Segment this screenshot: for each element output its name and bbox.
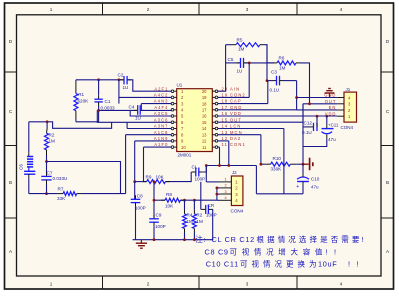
R7 labels (57, 187, 66, 201)
svg-text:18: 18 (202, 101, 207, 106)
wire bridge pin6-pin7 (126, 122, 128, 128)
svg-text:2: 2 (147, 7, 150, 12)
svg-text:12: 12 (222, 136, 229, 141)
connector J1 (337, 92, 356, 122)
wire bottom net (256, 193, 303, 195)
C5 labels (228, 57, 243, 74)
svg-text:12: 12 (202, 139, 207, 144)
resistor R7 (57, 192, 82, 196)
svg-text:值: 值 (315, 247, 323, 257)
CR labels (206, 203, 217, 218)
svg-text:!: ! (362, 235, 364, 244)
svg-text:16: 16 (222, 111, 229, 116)
svg-text:为: 为 (309, 259, 317, 269)
svg-text:C8 C9: C8 C9 (205, 248, 229, 257)
svg-text:CL: CL (192, 165, 198, 170)
svg-text:可: 可 (230, 248, 238, 257)
svg-text:注: 注 (195, 234, 203, 244)
resistor R9 (143, 180, 170, 184)
junction C12 right top (316, 115, 319, 118)
capacitor C2 (120, 76, 131, 84)
capacitor C10 (296, 164, 309, 194)
wire MCN column (218, 135, 261, 165)
wire R7 row (29, 193, 126, 195)
svg-text:4: 4 (340, 7, 343, 12)
junction C3 left (266, 79, 269, 82)
wire C2 left riser to pins 2-3 (118, 80, 120, 104)
svg-text:A1N9: A1N9 (154, 136, 169, 141)
wire C3 right column (218, 81, 297, 110)
svg-text:VDD: VDD (230, 111, 242, 116)
J2 part label (231, 209, 244, 214)
capacitor C11 (303, 116, 334, 146)
svg-text:OUT: OUT (325, 99, 337, 104)
svg-text:0.1U: 0.1U (270, 88, 280, 93)
svg-text:3: 3 (225, 190, 227, 194)
svg-text:C1: C1 (105, 99, 111, 104)
wire C5 row (226, 62, 274, 64)
svg-text:1M: 1M (49, 139, 56, 144)
J1 part label (341, 125, 354, 130)
svg-text:14: 14 (202, 126, 207, 131)
svg-text:100P: 100P (195, 177, 206, 182)
R1 labels (78, 92, 90, 104)
resistor R5 (226, 43, 267, 63)
capacitor C8 (131, 195, 141, 239)
svg-text:CON4: CON4 (231, 209, 244, 214)
svg-text:2: 2 (147, 282, 150, 287)
C4 labels (129, 105, 141, 121)
capacitor C5 (237, 58, 248, 68)
svg-text:B: B (9, 180, 12, 185)
capacitor CR (201, 205, 213, 240)
wire pin9 to R9 node (135, 141, 172, 182)
svg-text:J2: J2 (232, 170, 237, 175)
power bar VCC (303, 158, 313, 171)
junction C2 left (118, 78, 121, 81)
svg-text:R2: R2 (49, 133, 55, 138)
svg-text:容: 容 (303, 247, 311, 257)
C6 label (19, 164, 24, 170)
wire C1 bottom to C4 (99, 109, 138, 111)
wire OUT row (218, 104, 337, 122)
svg-text:1M: 1M (279, 66, 286, 71)
note text line 1 (195, 234, 363, 244)
wire pin8 column (126, 135, 172, 194)
svg-text:11: 11 (222, 142, 228, 147)
wire CR column (200, 182, 202, 210)
svg-text:1M: 1M (187, 219, 194, 224)
svg-text:A3N7: A3N7 (154, 124, 169, 129)
svg-text:CAP: CAP (230, 99, 242, 104)
svg-text:13: 13 (202, 132, 207, 137)
capacitor C12 (303, 116, 317, 131)
C8 labels (135, 194, 146, 211)
svg-text:CON1: CON1 (230, 142, 246, 147)
svg-text:!: ! (357, 260, 359, 269)
svg-text:R2: R2 (196, 213, 202, 218)
C11 labels (328, 123, 339, 142)
junction C9-R9 (153, 180, 156, 183)
junction J2 pin2 (216, 187, 219, 190)
wire ground rail bottom (133, 239, 213, 241)
ground GND2 (J1) (325, 89, 335, 98)
svg-text:VDD: VDD (325, 111, 337, 116)
resistor R1 (74, 80, 78, 122)
wire pin10 (144, 147, 172, 182)
svg-text:11: 11 (202, 145, 207, 150)
wire pin20 to R5 node (218, 45, 226, 91)
J1 pin name labels (324, 93, 336, 117)
junction C7 bottom (45, 192, 48, 195)
svg-text:AIN: AIN (230, 86, 240, 91)
svg-text:100P: 100P (135, 206, 146, 211)
svg-text:!: ! (334, 248, 336, 257)
C3 labels (270, 70, 280, 93)
wire DA2 route (206, 141, 256, 194)
svg-text:C10: C10 (311, 177, 320, 182)
wire pin7 row (127, 128, 171, 130)
junction R9 left (133, 180, 136, 183)
C12 labels (302, 120, 312, 135)
junction R6 bottom (308, 102, 311, 105)
svg-text:15: 15 (202, 120, 207, 125)
wire to pin3 (141, 103, 171, 105)
svg-text:47u: 47u (311, 185, 319, 190)
svg-text:J1: J1 (346, 87, 351, 92)
resistor R8 (161, 198, 184, 202)
wire R1-C1-C2 top node (76, 79, 124, 81)
svg-text:C9: C9 (156, 213, 162, 218)
CL labels (192, 165, 206, 182)
R2 labels (49, 133, 56, 144)
svg-text:LCN: LCN (230, 124, 242, 129)
svg-text:1: 1 (50, 282, 53, 287)
junction C1 bottom (97, 109, 100, 112)
svg-text:+: + (296, 184, 299, 190)
svg-text:C6: C6 (19, 164, 24, 170)
junction C9 top (153, 199, 156, 202)
junction R2 top (46, 120, 49, 123)
junction C1 top (97, 78, 100, 81)
svg-text::: : (204, 235, 206, 244)
svg-text:R9: R9 (146, 174, 152, 179)
svg-text:C2: C2 (118, 73, 124, 78)
note text line 2 (205, 247, 337, 257)
svg-text:19: 19 (222, 93, 229, 98)
wire mic node jog (29, 122, 112, 129)
svg-text:视: 视 (252, 259, 260, 269)
C10 labels (311, 177, 320, 190)
svg-text:更: 更 (286, 260, 294, 269)
U1 part number label (178, 152, 192, 157)
svg-text:!: ! (326, 248, 328, 257)
svg-text:20: 20 (202, 89, 207, 94)
wire R8 row (154, 199, 217, 201)
svg-text:据: 据 (267, 235, 275, 244)
svg-text:C7: C7 (47, 171, 53, 176)
svg-text:CR: CR (208, 203, 215, 208)
op-amp U1 body (DIP-20, 2M001) (171, 89, 218, 152)
junction R4 top (183, 199, 186, 202)
svg-text:1M: 1M (196, 219, 203, 224)
svg-text:10: 10 (181, 145, 186, 150)
C7 labels (47, 171, 68, 182)
wire to pin2 (119, 96, 171, 98)
J2 designator (232, 170, 237, 175)
svg-text:0.1U: 0.1U (302, 130, 312, 135)
svg-text:R7: R7 (58, 187, 64, 192)
svg-text:1: 1 (50, 7, 53, 12)
svg-text:1U: 1U (123, 85, 129, 90)
wire C9 column (153, 182, 155, 219)
C9 labels (155, 213, 166, 230)
svg-text:增: 增 (278, 247, 286, 257)
svg-text:0.0033: 0.0033 (101, 106, 115, 111)
note text line 3 (206, 259, 359, 269)
svg-text:20: 20 (222, 86, 229, 91)
svg-text:R10: R10 (273, 156, 282, 161)
R5 labels (237, 38, 245, 52)
svg-text:R6: R6 (279, 56, 285, 61)
svg-text:大: 大 (291, 247, 299, 257)
J1 designator (346, 87, 351, 92)
wire C4 right to pin4 (140, 109, 171, 111)
svg-text:况: 况 (288, 235, 296, 244)
svg-text:OUT: OUT (230, 117, 242, 122)
wire CON2 column (218, 63, 249, 98)
svg-text:3: 3 (246, 282, 249, 287)
svg-text:33K: 33K (57, 196, 66, 201)
svg-text:620K: 620K (78, 99, 90, 104)
svg-text:C5: C5 (228, 57, 234, 62)
svg-text:19: 19 (202, 95, 207, 100)
svg-text:13: 13 (222, 130, 229, 135)
svg-text:C8: C8 (137, 194, 143, 199)
svg-text:A1F0: A1F0 (154, 142, 168, 147)
svg-text:1U: 1U (237, 69, 243, 74)
junction gnd rail R4 (183, 238, 186, 241)
svg-text:15: 15 (222, 117, 229, 122)
U1 left pin name labels (154, 86, 169, 147)
wire pin18 riser (218, 81, 268, 104)
wire main right column (302, 104, 304, 164)
svg-text:DA2: DA2 (230, 136, 241, 141)
svg-text:根: 根 (257, 234, 265, 244)
svg-text:18: 18 (222, 99, 229, 104)
svg-text:可: 可 (240, 260, 248, 269)
svg-text:情: 情 (263, 259, 271, 269)
svg-text:2M001: 2M001 (178, 152, 192, 157)
wire EN row (297, 109, 338, 111)
svg-text:1: 1 (225, 178, 227, 182)
svg-text:EN: EN (329, 105, 337, 110)
svg-text:GND: GND (230, 105, 242, 110)
resistor R2 (bottom) (192, 200, 196, 240)
svg-text:47u: 47u (328, 137, 336, 142)
ground GND1 (136, 240, 147, 249)
resistor R6 (267, 61, 310, 104)
junction DA2-CL (205, 164, 208, 167)
svg-text:CL CR C12: CL CR C12 (212, 235, 255, 244)
svg-text:C4: C4 (129, 105, 135, 110)
wire C3 column (266, 45, 268, 81)
svg-text:B: B (386, 180, 389, 185)
svg-text:10K: 10K (165, 204, 174, 209)
resistor R10 (261, 162, 303, 166)
wire LCN column (218, 129, 284, 194)
svg-text:4: 4 (340, 282, 343, 287)
junction CON1-DA2 (218, 164, 221, 167)
svg-text:4: 4 (225, 196, 227, 200)
R10 labels (271, 156, 283, 172)
wire C8 column (134, 182, 136, 200)
wire GND row to J1 (297, 97, 338, 99)
svg-text:MCN: MCN (230, 130, 243, 135)
svg-text:100P: 100P (155, 224, 166, 229)
capacitor CL (191, 166, 206, 177)
wire C1 bottom to pin6 (97, 110, 171, 122)
U1 designator label (177, 82, 183, 87)
svg-text:换: 换 (298, 259, 306, 269)
svg-text:GND: GND (324, 93, 336, 98)
wire R9 row (135, 172, 192, 182)
svg-text:C3: C3 (271, 70, 277, 75)
junction R10 right (302, 163, 305, 166)
wire VDD row (218, 115, 337, 117)
junction gnd rail R2b (193, 238, 196, 241)
svg-text:R1: R1 (78, 92, 84, 97)
svg-text:CON2: CON2 (230, 93, 246, 98)
junction GND row (295, 96, 298, 99)
capacitor C7 (41, 162, 51, 194)
capacitor C4 (134, 105, 145, 115)
svg-text:要: 要 (352, 235, 360, 244)
svg-text:!: ! (348, 260, 350, 269)
C2 labels (118, 73, 129, 91)
junction C5 right (248, 62, 251, 65)
svg-text:3: 3 (246, 7, 249, 12)
svg-text:2: 2 (225, 184, 227, 188)
junction R2b top (193, 199, 196, 202)
R8 labels (165, 192, 174, 209)
wire C2 right to pin1 (127, 80, 171, 91)
svg-text:330K: 330K (271, 167, 283, 172)
svg-text:14: 14 (222, 124, 229, 129)
svg-text:+C11: +C11 (328, 123, 339, 128)
svg-text:C12: C12 (304, 120, 313, 125)
svg-text:10K: 10K (156, 174, 165, 179)
svg-text:16: 16 (202, 114, 207, 119)
svg-text:择: 择 (310, 234, 318, 244)
R4 labels (187, 213, 194, 225)
svg-text:A1C8: A1C8 (154, 130, 169, 135)
wire CL to J2 pin1 (206, 166, 220, 182)
svg-text:A4C2: A4C2 (154, 93, 169, 98)
svg-text:A3C6: A3C6 (154, 117, 169, 122)
R2b labels (196, 213, 203, 225)
transducer C6 (receiver) (24, 122, 35, 194)
svg-text:A4F4: A4F4 (154, 105, 168, 110)
junction DA2 col (227, 164, 230, 167)
svg-text:17: 17 (202, 108, 207, 113)
junction J2 pin3 (216, 193, 219, 196)
R9 labels (146, 174, 165, 179)
wire R2 bottom node (47, 162, 121, 194)
connector J2 (220, 176, 243, 206)
svg-text:A4N3: A4N3 (154, 99, 169, 104)
svg-text:否: 否 (331, 235, 339, 244)
junction gnd rail C9 (153, 238, 156, 241)
wire C4 right riser to pin3 (140, 104, 142, 111)
capacitor C1 (94, 80, 102, 111)
svg-text:U1: U1 (177, 82, 183, 87)
svg-text:是: 是 (320, 235, 328, 244)
wire CON1 stub (218, 147, 220, 165)
svg-text:R5: R5 (237, 38, 243, 43)
resistor R4 (183, 200, 187, 240)
capacitor C3 (267, 76, 297, 86)
junction C11 top (325, 115, 328, 118)
wire J2 column (217, 188, 220, 200)
svg-text:1M: 1M (238, 47, 245, 52)
svg-text:况: 况 (266, 248, 274, 257)
svg-text:C10 C11: C10 C11 (206, 260, 239, 269)
junction R2 bottom (45, 160, 48, 163)
svg-text:视: 视 (242, 247, 250, 257)
wire R1-C1 bottom loop (76, 110, 99, 121)
svg-text:17: 17 (222, 105, 229, 110)
svg-text:0.033U: 0.033U (53, 176, 68, 181)
U1 right pin number/name labels (222, 86, 246, 147)
svg-text:10uF: 10uF (318, 260, 337, 269)
capacitor C9 (149, 215, 159, 240)
svg-text:A3C5: A3C5 (154, 111, 169, 116)
svg-text:R8: R8 (166, 192, 172, 197)
svg-text:情: 情 (278, 234, 286, 244)
svg-text:情: 情 (254, 247, 262, 257)
svg-text:CON4: CON4 (341, 125, 354, 130)
wire pin5 tap (130, 110, 171, 116)
svg-text:选: 选 (299, 234, 307, 244)
R6 labels (279, 56, 286, 71)
svg-text:100P: 100P (206, 213, 217, 218)
svg-text:况: 况 (275, 260, 283, 269)
resistor R2 (45, 122, 49, 162)
junction R10 left (260, 163, 263, 166)
C1 labels (101, 99, 115, 111)
svg-text:A2F1: A2F1 (154, 86, 168, 91)
svg-text:需: 需 (341, 235, 349, 244)
